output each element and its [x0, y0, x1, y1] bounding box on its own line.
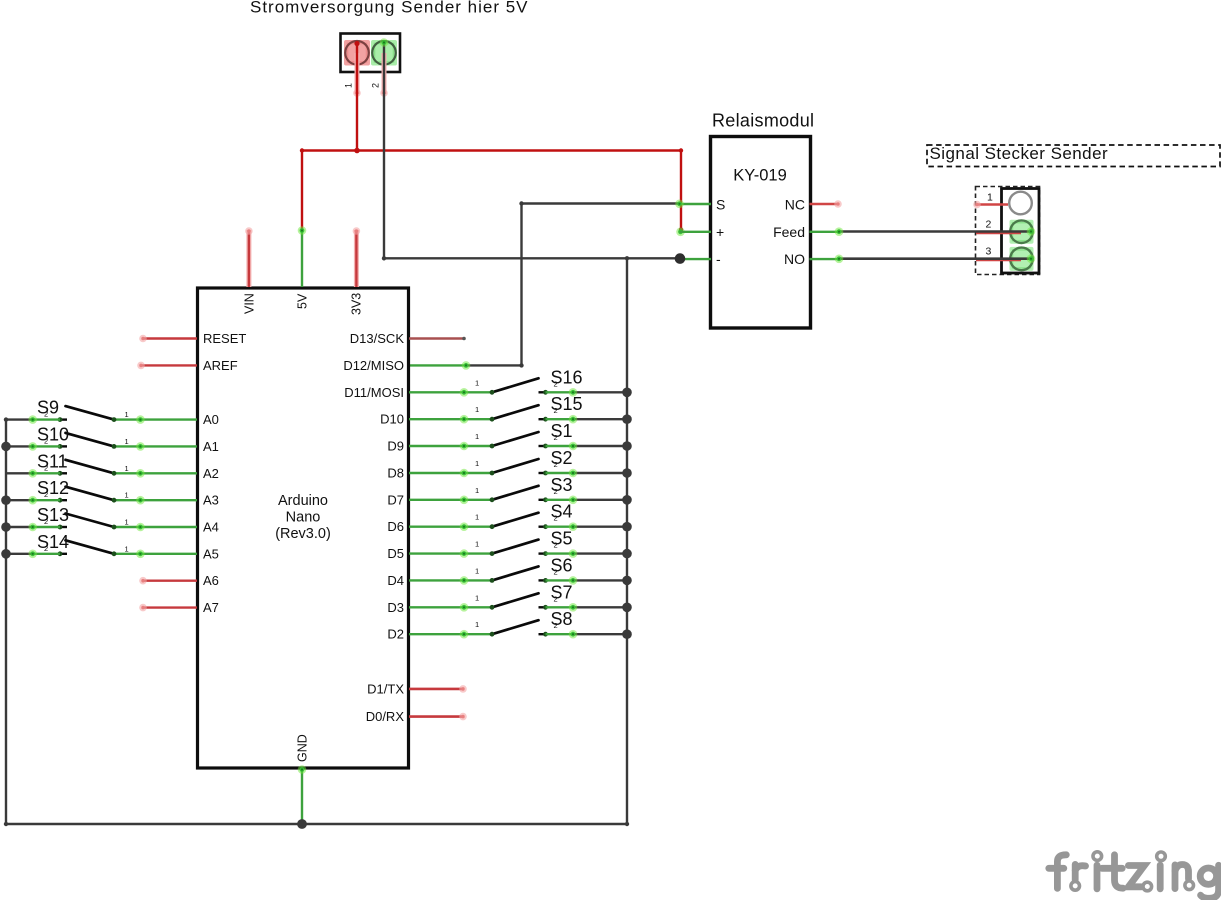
connector J1 power 2-pin — [341, 34, 401, 73]
svg-text:1: 1 — [475, 540, 479, 549]
svg-text:A0: A0 — [203, 412, 219, 427]
svg-text:S11: S11 — [37, 451, 68, 471]
svg-text:3: 3 — [986, 246, 992, 258]
relay pin - stub — [680, 258, 712, 260]
junction right bus S3 — [622, 495, 632, 505]
svg-text:+: + — [716, 224, 724, 240]
junction relay minus — [675, 253, 686, 264]
switch S10 — [44, 433, 129, 449]
wire S2 to right bus — [546, 469, 628, 478]
pin A7 leg — [139, 604, 197, 612]
wire S6 to right bus — [546, 576, 628, 585]
switch S6 — [475, 566, 558, 582]
svg-text:D2: D2 — [387, 627, 404, 642]
junction right bus S2 — [622, 468, 632, 478]
J2 pin2 pad — [1010, 220, 1034, 244]
wire A0 to switch S9 — [114, 415, 197, 424]
wire S9 to left bus — [6, 415, 60, 424]
pin 3V3 leg — [353, 227, 361, 287]
svg-text:1: 1 — [475, 432, 479, 441]
switch S3 — [475, 486, 558, 502]
switch S13 — [44, 514, 129, 530]
svg-text:S: S — [716, 197, 725, 213]
svg-text:S5: S5 — [551, 529, 573, 549]
pin GND wire green — [298, 765, 307, 824]
svg-text:1: 1 — [125, 437, 129, 446]
svg-text:1: 1 — [987, 192, 993, 204]
right bus vertical — [625, 256, 629, 824]
svg-text:Stromversorgung Sender hier 5V: Stromversorgung Sender hier 5V — [250, 0, 529, 17]
wire D5 to switch S5 — [409, 549, 492, 558]
switch S8 — [475, 620, 558, 636]
wire S7 to right bus — [546, 603, 628, 612]
pin RESET leg — [139, 335, 197, 343]
svg-text:S4: S4 — [551, 502, 573, 522]
svg-text:1: 1 — [475, 486, 479, 495]
svg-text:-: - — [716, 251, 721, 267]
svg-text:1: 1 — [475, 378, 479, 387]
wire S4 to right bus — [546, 522, 628, 531]
junction right bus S1 — [622, 441, 632, 451]
J2 pin3 pad — [1010, 247, 1034, 271]
svg-text:S1: S1 — [551, 421, 573, 441]
junction right bus S4 — [622, 522, 632, 532]
svg-text:S6: S6 — [551, 555, 573, 575]
J2 pin3 leg — [976, 259, 1021, 262]
switch S2 — [475, 459, 558, 475]
svg-text:(Rev3.0): (Rev3.0) — [275, 526, 331, 542]
relay pin NO stub — [810, 258, 840, 260]
label Signal Stecker Sender box — [927, 145, 1220, 167]
junction right bus S15 — [622, 414, 632, 424]
svg-text:D6: D6 — [387, 519, 404, 534]
svg-text:A5: A5 — [203, 546, 219, 561]
wire D12/MISO green segment — [409, 364, 466, 366]
wire A2 to switch S11 — [114, 469, 197, 478]
svg-text:1: 1 — [125, 410, 129, 419]
wire 5V pin green — [298, 226, 307, 287]
svg-text:1: 1 — [125, 464, 129, 473]
wire A5 to switch S14 — [114, 550, 197, 559]
wire D12 to relay S dark segments — [466, 201, 680, 367]
svg-text:D1/TX: D1/TX — [367, 681, 404, 696]
wire D9 to switch S1 — [409, 442, 492, 451]
wire S10 to left bus — [6, 442, 60, 451]
J1 pin 1 leg — [353, 53, 361, 97]
pin D13/SCK wire — [409, 337, 466, 341]
wire A4 to switch S13 — [114, 523, 197, 532]
relay pin NC leg — [810, 200, 842, 208]
pin AREF leg — [137, 362, 197, 370]
svg-text:2: 2 — [371, 83, 381, 88]
svg-text:D12/MISO: D12/MISO — [343, 358, 404, 373]
switch S15 — [475, 405, 558, 421]
svg-text:A1: A1 — [203, 439, 219, 454]
svg-text:NC: NC — [785, 197, 805, 213]
svg-text:A3: A3 — [203, 493, 219, 508]
connector J2 dashed outline — [976, 187, 1040, 275]
pin VIN leg — [245, 227, 253, 287]
svg-text:S15: S15 — [551, 394, 583, 414]
switch S11 — [44, 460, 129, 476]
junction right bus S5 — [622, 549, 632, 559]
relay pin + stub — [680, 231, 712, 233]
junction right bus S6 — [622, 576, 632, 586]
svg-text:S12: S12 — [37, 478, 69, 498]
svg-text:D3: D3 — [387, 600, 404, 615]
pin D1/TX leg — [409, 685, 467, 693]
svg-text:Nano: Nano — [286, 510, 321, 526]
wire S3 to right bus — [546, 496, 628, 505]
switch S12 — [44, 487, 129, 503]
J2 pin1 leg — [973, 201, 1008, 209]
svg-text:RESET: RESET — [203, 331, 246, 346]
svg-text:S3: S3 — [551, 475, 573, 495]
svg-text:1: 1 — [475, 459, 479, 468]
wire D10 to switch S15 — [409, 415, 492, 424]
wire A3 to switch S12 — [114, 496, 197, 505]
junction left bus S14 — [1, 549, 11, 559]
wire S5 to right bus — [546, 549, 628, 558]
switch S7 — [475, 593, 558, 609]
junction GND bottom — [297, 819, 307, 829]
svg-text:D10: D10 — [380, 412, 404, 427]
svg-text:1: 1 — [125, 518, 129, 527]
svg-text:1: 1 — [344, 83, 354, 88]
svg-text:2: 2 — [986, 219, 992, 231]
wire D4 to switch S6 — [409, 576, 492, 585]
svg-text:Signal Stecker Sender: Signal Stecker Sender — [930, 144, 1109, 163]
svg-text:1: 1 — [475, 566, 479, 575]
wire S14 to left bus — [6, 550, 60, 559]
svg-text:1: 1 — [475, 620, 479, 629]
wire S16 to right bus — [546, 388, 628, 397]
fritzing logo rings — [1071, 852, 1194, 891]
svg-text:D13/SCK: D13/SCK — [350, 331, 405, 346]
wire 5V down to relay + pin — [676, 151, 685, 237]
wire D2 to switch S8 — [409, 630, 492, 639]
wire D7 to switch S3 — [409, 496, 492, 505]
fritzing logo — [1049, 855, 1219, 899]
switch S4 — [475, 513, 558, 529]
svg-text:A7: A7 — [203, 600, 219, 615]
relay pin Feed stub — [810, 231, 840, 233]
svg-text:1: 1 — [125, 544, 129, 553]
junction right bus S7 — [622, 603, 632, 613]
svg-text:5V: 5V — [296, 293, 310, 309]
svg-text:D4: D4 — [387, 573, 404, 588]
junction right bus S8 — [622, 629, 632, 639]
svg-text:1: 1 — [475, 513, 479, 522]
J1 pin 2 leg — [380, 53, 388, 97]
wire S15 to right bus — [546, 415, 628, 424]
switch S16 — [475, 378, 558, 394]
wire 5V vertical from J1 pin1 — [354, 41, 359, 151]
switch S9 — [44, 406, 129, 422]
svg-text:AREF: AREF — [203, 358, 238, 373]
glow D12 wire joint — [462, 361, 471, 370]
switch S5 — [475, 540, 558, 556]
svg-text:3V3: 3V3 — [350, 293, 364, 315]
pin A6 leg — [139, 577, 197, 585]
svg-text:S10: S10 — [37, 424, 69, 444]
svg-text:KY-019: KY-019 — [733, 167, 787, 185]
wire A1 to switch S10 — [114, 442, 197, 451]
arduino title — [275, 493, 331, 542]
svg-text:D0/RX: D0/RX — [366, 709, 405, 724]
wire D6 to switch S4 — [409, 522, 492, 531]
svg-text:Relaismodul: Relaismodul — [712, 111, 814, 131]
svg-text:VIN: VIN — [243, 293, 257, 314]
junction left bus S12 — [1, 495, 11, 505]
J2 pin2 leg — [976, 232, 1021, 235]
junction left bus S10 — [1, 442, 11, 452]
svg-text:D5: D5 — [387, 546, 404, 561]
wire D8 to switch S2 — [409, 469, 492, 478]
switch S1 — [475, 432, 558, 448]
svg-text:S16: S16 — [551, 367, 583, 387]
junction right bus S16 — [622, 388, 632, 398]
svg-text:Arduino: Arduino — [278, 493, 328, 509]
wire S11 to left bus — [6, 469, 60, 478]
left bus vertical — [4, 417, 8, 824]
wire S1 to right bus — [546, 442, 628, 451]
svg-text:S9: S9 — [37, 398, 59, 418]
bottom ground wire — [4, 822, 629, 826]
svg-text:1: 1 — [475, 405, 479, 414]
svg-text:S7: S7 — [551, 582, 573, 602]
wire S13 to left bus — [6, 523, 60, 532]
svg-text:NO: NO — [784, 251, 805, 267]
wire NO to J2 pin3 — [835, 254, 1036, 263]
junction left bus S13 — [1, 522, 11, 532]
connector J2 body — [1002, 189, 1040, 274]
switch S14 — [44, 540, 129, 556]
svg-text:Feed: Feed — [773, 224, 805, 240]
J2 pin1 circle — [1009, 192, 1032, 215]
wire S8 to right bus — [546, 630, 628, 639]
svg-text:A2: A2 — [203, 466, 219, 481]
wire 5V horizontal — [300, 148, 683, 154]
svg-text:GND: GND — [296, 734, 310, 762]
svg-text:D7: D7 — [387, 492, 404, 507]
pin D0/RX leg — [409, 713, 467, 721]
wire minus horizontal to relay — [384, 257, 680, 259]
svg-text:1: 1 — [475, 593, 479, 602]
svg-text:D8: D8 — [387, 466, 404, 481]
wire minus from J1 pin2 down — [380, 38, 389, 260]
wire D11/MOSI to switch S16 — [409, 388, 492, 397]
svg-text:S13: S13 — [37, 505, 69, 525]
arduino U1 box — [198, 288, 409, 768]
svg-text:A6: A6 — [203, 573, 219, 588]
svg-text:S14: S14 — [37, 532, 69, 552]
wire 5V down to Arduino 5V pin — [301, 151, 303, 231]
svg-text:S8: S8 — [551, 609, 573, 629]
svg-text:A4: A4 — [203, 520, 219, 535]
svg-text:S2: S2 — [551, 448, 573, 468]
relay KY-019 box — [711, 137, 811, 329]
wire D3 to switch S7 — [409, 603, 492, 612]
wire S12 to left bus — [6, 496, 60, 505]
svg-text:D11/MOSI: D11/MOSI — [344, 385, 404, 400]
wire Feed to J2 pin2 — [835, 227, 1036, 236]
svg-text:D9: D9 — [387, 439, 404, 454]
svg-text:1: 1 — [125, 491, 129, 500]
relay pin S stub — [675, 200, 711, 209]
